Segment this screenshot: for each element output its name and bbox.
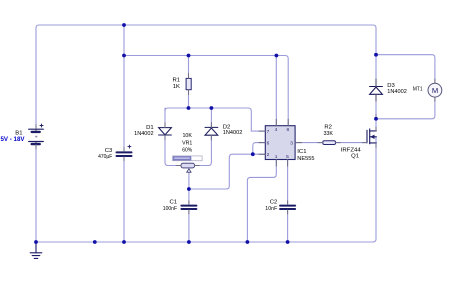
- wire VR1 right lead and D2 vertical: [195, 108, 212, 166]
- svg-text:1N4002: 1N4002: [223, 130, 243, 136]
- wire D1 vertical and VR1 left lead: [165, 108, 181, 166]
- wire D3 branch and drain node: [375, 55, 377, 131]
- svg-text:IRFZ44: IRFZ44: [341, 147, 362, 153]
- svg-text:5: 5: [286, 154, 289, 160]
- op-amp IC1 NE555 body: [265, 126, 295, 160]
- svg-text:1K: 1K: [173, 84, 180, 90]
- svg-text:7: 7: [267, 129, 270, 135]
- svg-text:B1: B1: [15, 130, 22, 136]
- svg-text:8: 8: [287, 127, 290, 133]
- wire rail R1-D1-D2 to pin7: [165, 108, 265, 131]
- capacitor C3: [117, 145, 132, 156]
- diode D3: [370, 79, 383, 101]
- svg-text:R1: R1: [172, 78, 180, 84]
- capacitor C1: [181, 206, 196, 209]
- svg-text:2: 2: [267, 152, 270, 158]
- svg-text:R2: R2: [324, 124, 332, 130]
- svg-text:M: M: [432, 86, 438, 95]
- wire VR1 wiper to pins 2 and 6: [189, 143, 265, 189]
- svg-text:NE555: NE555: [297, 156, 315, 162]
- IC1 pin stubs: [259, 119, 302, 166]
- ground: [30, 242, 42, 258]
- svg-text:C2: C2: [270, 200, 278, 206]
- svg-text:10K: 10K: [182, 133, 192, 139]
- potentiometer VR1 body: [181, 163, 195, 168]
- wire pin3 to R2 to gate: [295, 142, 367, 144]
- resistor R1: [186, 78, 191, 89]
- battery B1: [29, 124, 44, 144]
- svg-text:MT1: MT1: [413, 86, 423, 92]
- wire pin5 C2 branch: [287, 160, 289, 243]
- svg-text:10nF: 10nF: [265, 206, 277, 212]
- svg-text:Q1: Q1: [351, 154, 359, 160]
- svg-text:3: 3: [290, 140, 293, 146]
- wire bottom ground rail and MOSFET source: [36, 137, 376, 242]
- svg-text:C1: C1: [169, 200, 177, 206]
- svg-text:33K: 33K: [323, 131, 333, 137]
- transistor Q1 arrow: [370, 135, 374, 139]
- wire R1 leads: [188, 56, 190, 109]
- svg-text:470µF: 470µF: [98, 154, 113, 160]
- svg-text:1N4002: 1N4002: [387, 89, 407, 95]
- wire top V+ rail from battery to right drop: [36, 25, 376, 129]
- wire C1 branch: [188, 189, 190, 242]
- diode D1: [159, 128, 172, 135]
- node junction dots: [34, 23, 378, 244]
- svg-text:IC1: IC1: [297, 149, 306, 155]
- svg-text:5V - 18V: 5V - 18V: [1, 137, 25, 143]
- motor MT1: [428, 83, 442, 97]
- wire battery negative to bottom rail: [35, 145, 37, 242]
- svg-text:1: 1: [275, 154, 278, 160]
- diode D2: [205, 127, 218, 135]
- svg-text:4: 4: [275, 127, 278, 133]
- svg-text:60%: 60%: [182, 148, 193, 154]
- capacitor C2: [280, 206, 295, 209]
- transistor Q1 IRFZ44: [367, 129, 376, 144]
- component lead stubs gray: [36, 74, 435, 214]
- svg-text:1N4002: 1N4002: [134, 131, 154, 137]
- potentiometer VR1 slider display: [173, 156, 203, 161]
- wire C3 branch vertical: [123, 25, 125, 242]
- potentiometer VR1 wiper arrow: [187, 169, 191, 172]
- svg-text:VR1: VR1: [182, 140, 192, 146]
- wire motor bottom to drain node: [376, 97, 435, 119]
- wire second VCC rail to R1 pin4 pin8: [124, 56, 288, 126]
- svg-text:6: 6: [267, 140, 270, 146]
- wire pin1 to ground: [247, 160, 276, 243]
- resistor R2: [323, 141, 336, 145]
- svg-text:100nF: 100nF: [163, 206, 178, 212]
- wire motor branch top: [376, 55, 435, 84]
